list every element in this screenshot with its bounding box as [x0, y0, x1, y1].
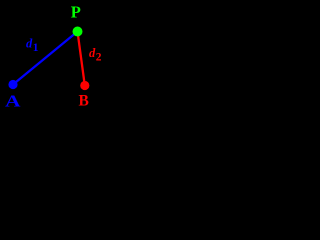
node P (green point)	[73, 27, 83, 37]
wire segment d1 from A to P	[13, 32, 78, 85]
node A (blue point)	[8, 80, 17, 89]
node B (red point)	[80, 81, 89, 90]
svg-text:P: P	[71, 3, 81, 22]
wire segment d2 from P to B	[78, 32, 85, 86]
svg-text:B: B	[79, 93, 89, 110]
svg-text:A: A	[5, 92, 21, 111]
